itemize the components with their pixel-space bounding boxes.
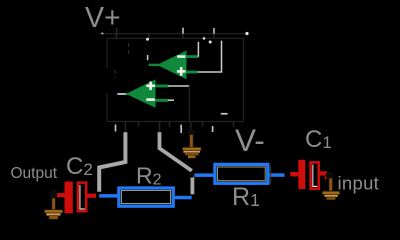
wire U1B non-inverting input to ground pin: [168, 86, 189, 122]
pin U1 bottom stub b: [169, 122, 171, 128]
wire stub U1B inverting input: [168, 99, 174, 101]
pin U1 top pin 2: [148, 34, 150, 39]
op-amp U1A: [149, 51, 199, 80]
capacitor C1: [290, 160, 327, 189]
node R1/R2 junction: [189, 172, 195, 178]
svg-text:Output: Output: [11, 165, 58, 182]
node V+ rail left end: [101, 33, 103, 35]
op-amp package U1 body outline: [107, 38, 244, 121]
pin U1 bottom pin 1: [115, 125, 117, 132]
resistor R2: [99, 188, 191, 206]
ground (input side): [322, 178, 339, 200]
wire U1A non-inverting input up to top pin: [198, 41, 222, 72]
wire output B pin to R1/R2 junction: [160, 132, 192, 171]
pin stub below rail pin 3: [182, 34, 184, 39]
pin U1 output A pin: [124, 122, 126, 134]
pin U1 top V+ pin: [116, 28, 118, 39]
node Output junction: [50, 189, 59, 198]
node V+ rail right end: [245, 32, 248, 35]
node junction on U1 top edge left: [146, 38, 149, 41]
pin U1 bottom stub a: [138, 122, 140, 128]
wire stub above U1A output: [147, 55, 149, 60]
wire junction down to R2: [190, 175, 194, 194]
wire U1A inverting input to top pin: [197, 42, 199, 57]
svg-text:V-: V-: [235, 122, 265, 158]
pin stub below rail pin 4: [213, 34, 215, 39]
wire U1B output: [117, 93, 130, 95]
pin U1 top pin 4: [213, 28, 215, 34]
pin U1 output B pin: [159, 122, 161, 134]
pin U1 bottom pin 5: [180, 125, 182, 133]
ground (middle, below U1): [182, 129, 201, 158]
pin U1 bottom stub d: [233, 122, 235, 128]
node input junction: [326, 171, 334, 179]
pin U1 bottom pin 7: [212, 126, 214, 132]
wire V+ supply rail: [101, 33, 248, 35]
ground (output side): [44, 198, 62, 219]
capacitor C2: [57, 182, 96, 214]
wire output A pin to output node: [99, 132, 125, 192]
op-amp U1B: [128, 79, 168, 107]
svg-text:input: input: [338, 173, 380, 194]
pin U1 bottom stub c: [202, 122, 204, 128]
node junction on U1 top edge right: [203, 37, 206, 40]
pin U1 ground pin: [190, 122, 192, 131]
node junction inside U1 top right: [209, 41, 212, 44]
pin U1 top pin 3: [182, 28, 184, 34]
resistor R1: [195, 164, 285, 184]
svg-text:V+: V+: [85, 2, 121, 34]
